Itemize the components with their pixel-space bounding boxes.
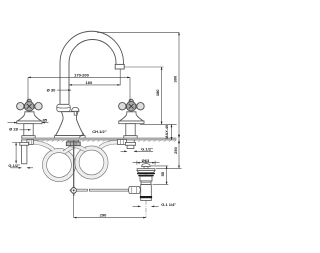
svg-text:CH.1/2": CH.1/2"	[92, 129, 106, 134]
svg-text:G.1/2": G.1/2"	[141, 147, 153, 152]
svg-text:55: 55	[160, 171, 165, 176]
svg-text:G.1 1/4": G.1 1/4"	[161, 202, 176, 207]
svg-text:290: 290	[100, 212, 107, 217]
svg-text:300: 300	[172, 75, 177, 82]
svg-text:Ø 30: Ø 30	[47, 87, 56, 92]
svg-text:180: 180	[155, 89, 160, 96]
svg-text:160: 160	[86, 80, 93, 85]
svg-text:MAX.40: MAX.40	[164, 125, 169, 139]
svg-text:170-200: 170-200	[74, 72, 89, 77]
svg-text:Ø63: Ø63	[142, 158, 150, 163]
svg-text:85: 85	[43, 118, 48, 123]
svg-text:250: 250	[173, 146, 178, 153]
svg-text:Ø 28: Ø 28	[9, 127, 18, 132]
svg-text:G.1/2": G.1/2"	[8, 163, 20, 168]
